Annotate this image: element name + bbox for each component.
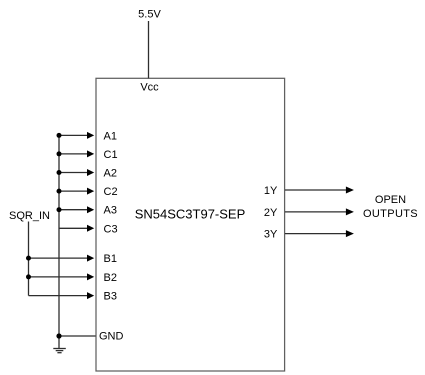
svg-text:A1: A1 (104, 130, 117, 142)
svg-text:OUTPUTS: OUTPUTS (363, 208, 418, 220)
svg-text:3Y: 3Y (264, 229, 278, 241)
svg-text:1Y: 1Y (264, 185, 278, 197)
svg-text:GND: GND (99, 330, 124, 342)
svg-text:C2: C2 (104, 186, 118, 198)
svg-text:C3: C3 (104, 223, 118, 235)
svg-text:2Y: 2Y (264, 207, 278, 219)
svg-text:SN54SC3T97-SEP: SN54SC3T97-SEP (135, 206, 246, 221)
svg-text:B3: B3 (104, 291, 117, 303)
svg-text:5.5V: 5.5V (138, 8, 161, 20)
svg-text:A3: A3 (104, 205, 117, 217)
svg-text:C1: C1 (104, 149, 118, 161)
svg-text:SQR_IN: SQR_IN (9, 210, 50, 222)
svg-text:OPEN: OPEN (375, 194, 406, 206)
svg-text:Vcc: Vcc (140, 82, 159, 94)
svg-text:B1: B1 (104, 253, 117, 265)
svg-text:B2: B2 (104, 272, 117, 284)
svg-text:A2: A2 (104, 168, 117, 180)
